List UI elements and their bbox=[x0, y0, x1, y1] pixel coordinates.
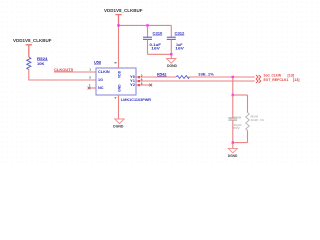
svg-text:1G: 1G bbox=[98, 78, 103, 82]
IC U58 LMK1C1103PWR clock buffer bbox=[94, 59, 151, 102]
svg-text:33E_1%: 33E_1% bbox=[198, 72, 214, 76]
wire Y0 to resistor R542 bbox=[136, 76, 176, 78]
junction at C310 tap bbox=[146, 24, 148, 26]
svg-text:10K: 10K bbox=[37, 61, 45, 66]
svg-text:DGND: DGND bbox=[113, 124, 124, 128]
net label CLKOUT5 bbox=[54, 67, 74, 72]
svg-text:16V: 16V bbox=[175, 47, 184, 51]
wire VDD rail down to IC VDD pin bbox=[118, 25, 120, 68]
capacitor (DNI, gray) left branch bbox=[228, 95, 242, 143]
wire bottom of termination bbox=[233, 142, 248, 144]
svg-text:C310: C310 bbox=[153, 31, 163, 35]
junction at split bbox=[232, 94, 234, 96]
svg-text:EXT_REFCLK1: EXT_REFCLK1 bbox=[264, 77, 290, 82]
junction at bottom bbox=[232, 141, 234, 143]
wire CLKOUT5 to CLKIN pin 1 bbox=[54, 71, 96, 73]
resistor R542 bbox=[157, 72, 214, 78]
resistor R524 bbox=[27, 56, 49, 70]
pin Y2 end square bbox=[138, 84, 140, 86]
svg-text:NC: NC bbox=[98, 86, 104, 90]
power flag VDD1V8_CLKBUF (left) bbox=[13, 38, 52, 57]
ground DGND (termination) bbox=[228, 148, 238, 157]
svg-text:49.9K_1%: 49.9K_1% bbox=[251, 118, 265, 122]
wire Y1 to offpage EXT_REFCLK1 bbox=[136, 80, 255, 82]
wire IC GND pin down bbox=[118, 95, 120, 119]
wire down from junction bbox=[232, 77, 234, 95]
svg-text:[13]: [13] bbox=[293, 77, 300, 82]
svg-text:CLKIN: CLKIN bbox=[98, 70, 110, 74]
svg-text:LMK1C1103PWR: LMK1C1103PWR bbox=[121, 98, 151, 102]
NC pin stub with no-connect X bbox=[88, 87, 96, 90]
svg-text:DGND: DGND bbox=[167, 64, 178, 68]
svg-text:Y2: Y2 bbox=[130, 83, 135, 87]
svg-text:50V: 50V bbox=[233, 126, 240, 130]
ground DGND (under IC) bbox=[113, 119, 124, 128]
pin Y1 end square bbox=[138, 80, 140, 82]
svg-text:VDD1V8_CLKBUF: VDD1V8_CLKBUF bbox=[13, 38, 52, 43]
wire R524 to 1G pin bbox=[29, 70, 96, 81]
wire top rail bbox=[119, 24, 172, 26]
svg-text:U58: U58 bbox=[94, 59, 102, 64]
svg-text:C38: C38 bbox=[234, 115, 241, 119]
svg-text:C312: C312 bbox=[175, 31, 185, 35]
svg-text:VDD1V8_CLKBUF: VDD1V8_CLKBUF bbox=[104, 8, 143, 13]
no-connect X on Y2 bbox=[149, 84, 152, 87]
svg-text:CLKOUT5: CLKOUT5 bbox=[54, 67, 74, 72]
resistor (DNI, gray) right branch bbox=[246, 95, 265, 143]
wire stub to ground bbox=[170, 54, 172, 58]
power flag VDD1V8_CLKBUF (top) bbox=[104, 8, 143, 26]
capacitor C310 bbox=[143, 25, 162, 54]
svg-text:16V: 16V bbox=[151, 47, 160, 51]
pin Y0 end square bbox=[138, 76, 140, 78]
junction at power stub bbox=[117, 24, 119, 26]
capacitor C312 bbox=[167, 25, 185, 54]
svg-text:GND: GND bbox=[118, 84, 122, 92]
svg-text:VDD: VDD bbox=[118, 70, 122, 78]
wire caps bottom rail bbox=[148, 53, 172, 55]
svg-text:R542: R542 bbox=[157, 72, 167, 76]
ground DGND (under caps) bbox=[167, 59, 178, 69]
wire stub to ground bbox=[232, 143, 234, 149]
wire split to right branch bbox=[233, 94, 248, 96]
junction on SoC_CLKIN net bbox=[232, 76, 234, 78]
wire R542 to offpage SoC_CLKIN bbox=[188, 76, 254, 78]
junction at C312 bottom bbox=[170, 53, 172, 55]
offpage connector EXT_REFCLK1 bbox=[256, 77, 300, 83]
offpage connector SoC_CLKIN bbox=[256, 73, 295, 80]
wire Y2 stub bbox=[136, 84, 150, 86]
svg-text:DGND: DGND bbox=[228, 154, 238, 158]
